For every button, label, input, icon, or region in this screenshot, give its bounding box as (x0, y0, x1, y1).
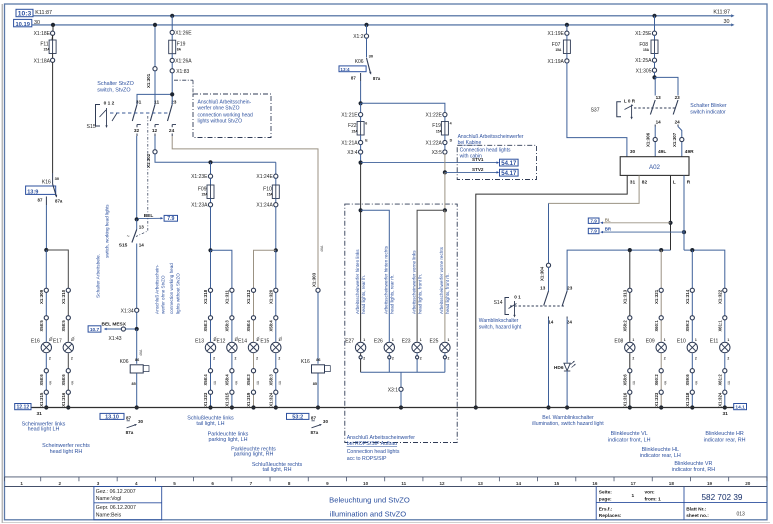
connector E27 lower (359, 356, 362, 359)
wire F08 to X1:25A (654, 54, 656, 59)
option box working lights without StvZO (193, 94, 271, 138)
svg-text:30: 30 (369, 54, 374, 59)
reference box 7.9 BR (588, 228, 599, 233)
junction X1:83 branch (170, 92, 174, 96)
svg-text:13.10: 13.10 (105, 414, 119, 420)
svg-text:4: 4 (450, 122, 452, 126)
wire E25 lower (444, 353, 446, 372)
svg-text:X1:301: X1:301 (146, 73, 151, 88)
wire R-net (684, 250, 725, 290)
svg-text:87: 87 (311, 415, 317, 420)
lamp E11 (710, 338, 730, 360)
svg-text:10.7: 10.7 (90, 327, 100, 333)
wire HD6 to ground (566, 371, 568, 408)
svg-text:85: 85 (313, 382, 317, 386)
connector X3:5 (432, 150, 447, 156)
wire label E12 (234, 380, 238, 385)
lamp E23 (402, 338, 423, 360)
wire E08 branch (629, 290, 631, 407)
svg-text:X58:4: X58:4 (225, 374, 230, 386)
wire X3:5 down (444, 154, 446, 173)
wire bus K11:87 (33, 14, 735, 17)
svg-text:2: 2 (664, 357, 666, 361)
reference box 7.9 BL (588, 218, 599, 223)
svg-text:18: 18 (669, 481, 675, 486)
svg-text:X1:23E: X1:23E (191, 174, 208, 180)
switch S15 pole 31-32 (132, 100, 141, 136)
svg-text:E26: E26 (374, 339, 383, 345)
svg-text:F22: F22 (348, 123, 357, 129)
lamp E25 (429, 338, 450, 360)
lamp E26 (374, 338, 395, 360)
wire MESX to K06 coil (136, 329, 138, 364)
wire STV1 (361, 157, 500, 164)
wire S37 pin14 to A02 (654, 127, 656, 157)
wire branch to E17 (46, 250, 68, 290)
wire S37 pole1 feed (654, 77, 656, 95)
wire STV2 (445, 167, 499, 174)
wire ground bus 31 (31, 407, 734, 409)
svg-text:2: 2 (213, 357, 215, 361)
svg-text:30: 30 (323, 419, 329, 424)
svg-text:tail light, LH: tail light, LH (196, 421, 224, 427)
svg-text:X1:313: X1:313 (623, 289, 628, 304)
wire X1:25A to X1:305 (654, 62, 656, 68)
svg-text:connection working head: connection working head (169, 263, 174, 314)
svg-text:2: 2 (49, 357, 51, 361)
svg-text:30: 30 (34, 20, 40, 26)
svg-text:X1:315: X1:315 (39, 392, 44, 407)
svg-text:0 1: 0 1 (514, 295, 521, 300)
connector X1:302 (146, 150, 157, 168)
connector X1:319 (246, 390, 255, 407)
svg-text:X1:319: X1:319 (246, 392, 251, 407)
svg-text:X58:4: X58:4 (246, 320, 251, 332)
switch S37 pole 13-14 (650, 95, 661, 127)
svg-text:from: 1: from: 1 (645, 497, 662, 503)
svg-text:85: 85 (132, 382, 136, 386)
junction E09 ground (659, 405, 663, 409)
svg-text:switch, hazard light: switch, hazard light (479, 325, 522, 331)
svg-text:15A: 15A (267, 193, 274, 197)
svg-text:1: 1 (664, 338, 666, 342)
wire F10 to X1:24A (275, 199, 277, 203)
svg-text:X1:311: X1:311 (225, 290, 230, 304)
wire F11 branch top (52, 25, 53, 40)
svg-text:BEL: BEL (144, 213, 154, 219)
wire X1:301 to S15 pin11 (154, 71, 156, 105)
node K11:87 label right (713, 10, 730, 16)
wire S15 pin32 down (136, 136, 138, 219)
wire BEL arrow (138, 213, 163, 219)
connector X1:25A (635, 58, 657, 64)
connector X58:2 upper (623, 316, 632, 332)
svg-text:1: 1 (392, 338, 394, 342)
svg-text:Connection head lights: Connection head lights (347, 449, 400, 455)
wire label upper E12 (235, 336, 239, 341)
svg-text:E16: E16 (31, 339, 40, 345)
svg-text:F19: F19 (177, 41, 186, 47)
lamp E17 (53, 338, 74, 360)
svg-text:X1:316: X1:316 (623, 392, 628, 407)
wire label upper E15 (279, 336, 283, 341)
svg-text:E27: E27 (345, 339, 354, 345)
svg-text:1: 1 (420, 338, 422, 342)
svg-text:X1:312: X1:312 (246, 289, 251, 304)
connector X58:6 lower (623, 369, 632, 386)
svg-text:Blinkleuchte VL: Blinkleuchte VL (611, 431, 648, 437)
svg-text:X60:1: X60:1 (654, 320, 659, 332)
svg-text:X3:5: X3:5 (432, 150, 443, 156)
wire collector to X3:1 (400, 372, 402, 387)
wire E16 branch (45, 290, 47, 407)
node 31 label left (37, 411, 43, 417)
text indicator rear, RH (704, 431, 746, 443)
svg-text:9: 9 (326, 481, 329, 486)
connector X60:2 lower (654, 369, 663, 386)
svg-text:7.9: 7.9 (167, 216, 174, 222)
svg-text:K11:87: K11:87 (713, 10, 730, 16)
svg-text:Blinkleuchte HR: Blinkleuchte HR (705, 431, 743, 437)
text tail light, RH (252, 462, 303, 473)
wire bus 30 (32, 23, 735, 26)
connector X59:2 upper (685, 316, 694, 332)
wire L-net (567, 250, 670, 291)
connector X1:21A (341, 138, 368, 146)
wire X3:1 to ground (400, 391, 402, 407)
svg-text:1: 1 (632, 338, 634, 342)
svg-text:2: 2 (71, 357, 73, 361)
wire S15 pin31 feed (137, 94, 172, 104)
connector X3:4 (347, 150, 362, 156)
connector X1:320 (269, 288, 278, 304)
wire X1:303 to K16 coil (317, 292, 319, 364)
svg-text:4: 4 (135, 481, 138, 486)
fuse F09 (198, 178, 214, 198)
svg-text:16: 16 (592, 481, 598, 486)
svg-text:STV2: STV2 (472, 167, 484, 172)
svg-text:2: 2 (59, 481, 62, 486)
svg-text:2: 2 (632, 357, 634, 361)
junction BEL MESX tap (135, 327, 139, 331)
svg-text:87a: 87a (126, 430, 134, 435)
node K11:87 reference box 10:3 (16, 9, 33, 17)
wire X1:26A to X1:83 (171, 62, 173, 69)
reference box 14.1 (734, 404, 747, 411)
svg-text:X61:2: X61:2 (718, 374, 723, 386)
coupling S37 (634, 107, 676, 109)
connector X58:3 lower (269, 369, 278, 386)
svg-text:6: 6 (211, 481, 214, 486)
lamp E15 (260, 338, 281, 360)
wire split to F19cab (361, 103, 445, 112)
wire X1:2 to K06 contact (366, 38, 368, 58)
connector X1:323 (203, 390, 212, 407)
title block designer box (94, 487, 162, 520)
switch S15 pole 23-24 (168, 100, 177, 136)
svg-text:X1:34: X1:34 (121, 308, 134, 314)
relay contact reference 53:2 (287, 413, 329, 434)
junction E10 tap (690, 248, 694, 252)
connector X1:22E (425, 113, 447, 119)
svg-text:X1:310: X1:310 (61, 289, 66, 304)
svg-text:X1:26E: X1:26E (175, 30, 192, 36)
junction E13 ground (208, 405, 212, 409)
svg-text:X1:318: X1:318 (685, 392, 690, 407)
svg-text:2: 2 (363, 357, 365, 361)
connector X58:5 upper (39, 316, 48, 332)
text indicator front, RH (672, 461, 716, 473)
junction E15 ground (274, 405, 278, 409)
node 30 label left (34, 20, 40, 26)
svg-text:10:3: 10:3 (18, 11, 32, 18)
svg-text:12.12: 12.12 (16, 405, 29, 411)
connector X1:309 (39, 288, 48, 304)
text indicator rear, LH (640, 447, 681, 459)
svg-text:24: 24 (675, 119, 681, 124)
wire bus30 to X1:2 (366, 25, 368, 34)
svg-text:46A: 46A (139, 349, 143, 356)
lamp E14 (238, 338, 259, 360)
reference box 7.9 BEL (164, 215, 177, 222)
svg-text:Warnblinkschalter: Warnblinkschalter (479, 318, 519, 324)
svg-text:14: 14 (139, 242, 145, 247)
svg-text:15: 15 (554, 481, 560, 486)
option box ROPS/SIP (345, 204, 457, 442)
wire label upper E16 (50, 336, 54, 341)
svg-text:4A: 4A (72, 336, 76, 341)
svg-text:head light RH: head light RH (50, 449, 83, 455)
fuse F11 (40, 35, 56, 54)
wire E12 branch (231, 290, 233, 407)
junction E09 tap (659, 248, 663, 252)
svg-text:X1:323: X1:323 (203, 392, 208, 407)
fuse F10 (263, 178, 279, 198)
wire S14 pin14 to ground (548, 319, 550, 408)
connector X1:24E (256, 174, 278, 180)
junction bus30-F07 (565, 23, 569, 27)
svg-text:X1:320: X1:320 (269, 289, 274, 304)
wire S14 pin24 to HD6 (566, 319, 568, 363)
svg-text:X1:315: X1:315 (225, 392, 230, 407)
svg-text:4A: 4A (727, 380, 731, 385)
coupling S15 illumination (136, 116, 148, 237)
rotated text working lights option German (154, 264, 165, 314)
svg-text:Schalter Arbeitsbele.: Schalter Arbeitsbele. (96, 254, 102, 298)
svg-text:X58:6: X58:6 (623, 374, 628, 386)
fuse F07 (552, 35, 571, 53)
svg-text:11: 11 (401, 481, 406, 486)
svg-text:Gez.: 06.12.2007: Gez.: 06.12.2007 (96, 489, 136, 495)
connector X58:3 upper (225, 316, 234, 332)
svg-text:E13: E13 (195, 339, 204, 345)
svg-text:X58:6: X58:6 (39, 374, 44, 386)
switch S15 coupling (110, 112, 170, 114)
option box head lights with cabin (457, 134, 536, 180)
svg-text:15A: 15A (352, 130, 359, 134)
svg-text:X1:323: X1:323 (654, 392, 659, 407)
wire split to E12 (211, 250, 232, 290)
wire label E09 (664, 380, 668, 385)
svg-text:2: 2 (420, 357, 422, 361)
text tail light, LH (187, 416, 234, 427)
svg-text:23: 23 (675, 95, 681, 100)
wire label E11 (727, 380, 731, 385)
svg-text:parking light, LH: parking light, LH (209, 437, 248, 443)
lamp E13 (195, 338, 216, 360)
svg-text:1: 1 (727, 338, 729, 342)
wire BEL MESX arrow (102, 322, 136, 331)
wire E27 lower (360, 353, 362, 372)
connector X58:6 lower (61, 369, 70, 386)
wire F19 to X1:26A (171, 54, 173, 59)
text indicator front, LH (608, 431, 651, 443)
connector X1:34 (121, 308, 139, 314)
svg-text:2: 2 (727, 357, 729, 361)
svg-text:lights without StvZO: lights without StvZO (175, 273, 180, 314)
junction busK11:87-F08 (652, 14, 656, 18)
pin label L A02 (673, 180, 676, 186)
svg-text:X59:6: X59:6 (685, 374, 690, 386)
junction E08 ground (628, 405, 632, 409)
connector X1:306 (646, 132, 658, 147)
connector X1:324 (269, 390, 278, 407)
svg-text:5: 5 (173, 481, 176, 486)
svg-text:indicator rear, RH: indicator rear, RH (704, 438, 746, 444)
svg-text:E08: E08 (614, 339, 623, 345)
svg-text:R: R (687, 180, 691, 186)
svg-text:13:4: 13:4 (340, 67, 350, 72)
svg-text:K16: K16 (301, 359, 310, 365)
text Warnblinkschalter (479, 318, 522, 331)
wire X1:302 feed to fuses (155, 154, 276, 163)
wire E14 branch (253, 290, 255, 407)
svg-text:L: L (673, 180, 676, 186)
wire X1:18A down to K16 contact (52, 62, 54, 173)
wire label E17 (71, 380, 75, 385)
svg-text:12: 12 (152, 128, 158, 134)
junction STV1 tap (359, 161, 363, 165)
svg-text:2: 2 (256, 357, 258, 361)
svg-text:X1:21E: X1:21E (341, 113, 358, 119)
wire E17 branch (67, 290, 69, 407)
svg-text:A02: A02 (649, 164, 661, 171)
svg-text:20: 20 (745, 481, 751, 486)
svg-text:head light LH: head light LH (28, 427, 60, 433)
svg-text:X1:324: X1:324 (718, 392, 723, 407)
wire into ROPS left (360, 163, 362, 211)
svg-text:X1:22A: X1:22A (425, 141, 442, 147)
text head light RH (42, 443, 90, 455)
switch S15 illumination contact (119, 219, 145, 249)
wire label E14 (256, 380, 260, 385)
svg-text:Schalter StvZO: Schalter StvZO (97, 81, 134, 87)
svg-text:page:: page: (599, 498, 612, 503)
svg-text:Name:Beis: Name:Beis (96, 512, 122, 518)
wire X1:22A to X3:5 (444, 144, 446, 150)
rotated text switch working head lights (96, 204, 110, 298)
svg-text:S15: S15 (119, 242, 128, 248)
svg-text:15A: 15A (436, 130, 443, 134)
svg-text:S15: S15 (87, 124, 96, 130)
junction STV2 tap (443, 170, 447, 174)
svg-text:X1:324: X1:324 (269, 392, 274, 407)
wire to X1:21E (360, 103, 362, 112)
connector X1:19A (547, 59, 569, 65)
connector X1:2 (353, 34, 368, 40)
svg-text:82: 82 (642, 180, 648, 186)
relay contact K06 (339, 54, 381, 82)
connector X1:22A (425, 138, 452, 146)
node 30 reference box 10.19 (14, 19, 32, 27)
wire A02 R down (683, 175, 685, 250)
junction E11 ground (723, 405, 727, 409)
junction ROPS right (443, 208, 447, 212)
svg-text:E23: E23 (402, 339, 411, 345)
svg-text:X1:18A: X1:18A (34, 58, 51, 64)
svg-text:Scheinwerfer rechts: Scheinwerfer rechts (42, 443, 90, 449)
svg-text:8A: 8A (177, 48, 182, 52)
svg-text:X1:19E: X1:19E (547, 31, 564, 37)
wire label E16 (49, 380, 53, 385)
svg-text:2: 2 (695, 357, 697, 361)
svg-text:E14: E14 (238, 339, 247, 345)
connector X58:4 upper (246, 316, 255, 332)
svg-text:illumination, switch hazard li: illumination, switch hazard light (532, 421, 604, 427)
connector X1:324 (718, 390, 727, 407)
svg-text:E25: E25 (429, 339, 438, 345)
svg-text:46A: 46A (320, 245, 324, 252)
connector X1:18E (34, 31, 55, 37)
svg-text:2: 2 (392, 357, 394, 361)
svg-text:10: 10 (363, 481, 369, 486)
svg-text:14: 14 (656, 119, 662, 124)
connector X1:315 (39, 390, 48, 407)
junction bus30-X1:301 (153, 23, 157, 27)
svg-text:werfer ohne StvZO: werfer ohne StvZO (161, 275, 166, 314)
svg-text:15A: 15A (44, 48, 51, 52)
wire E13 drop (210, 250, 212, 290)
svg-text:X1:25A: X1:25A (635, 58, 652, 64)
svg-text:parking light, RH: parking light, RH (234, 452, 274, 458)
wire K06-87 down (360, 81, 362, 103)
wire E09 drop (660, 250, 662, 290)
wire K16 coil to ground (317, 373, 319, 407)
connector X58:4 lower (225, 369, 234, 386)
wire S37 pin24 to A02 (678, 127, 682, 157)
svg-text:head lights, rear lh.: head lights, rear lh. (361, 275, 366, 314)
svg-text:7.9: 7.9 (590, 218, 597, 223)
wire X1:305 to S37 (654, 72, 656, 77)
connector X58:5 upper (61, 316, 70, 332)
svg-text:X1:302: X1:302 (146, 153, 151, 168)
rotated text head lights, rear rh. (384, 245, 395, 314)
connector X1:321 (654, 288, 663, 304)
svg-text:K06: K06 (120, 359, 129, 365)
svg-text:X58:3: X58:3 (246, 374, 251, 386)
fuse F19 cab (432, 117, 451, 136)
connector X3:1 (388, 387, 403, 393)
relay coil K16 (301, 358, 330, 386)
pin label 31 A02 (630, 180, 636, 186)
junction E17 ground (66, 405, 70, 409)
svg-text:14: 14 (548, 319, 554, 324)
switch S14 actuator (494, 295, 522, 318)
svg-text:E10: E10 (677, 339, 686, 345)
lamp E10 (677, 338, 698, 360)
svg-text:15A: 15A (643, 48, 650, 52)
junction S37 feed split (652, 75, 656, 79)
